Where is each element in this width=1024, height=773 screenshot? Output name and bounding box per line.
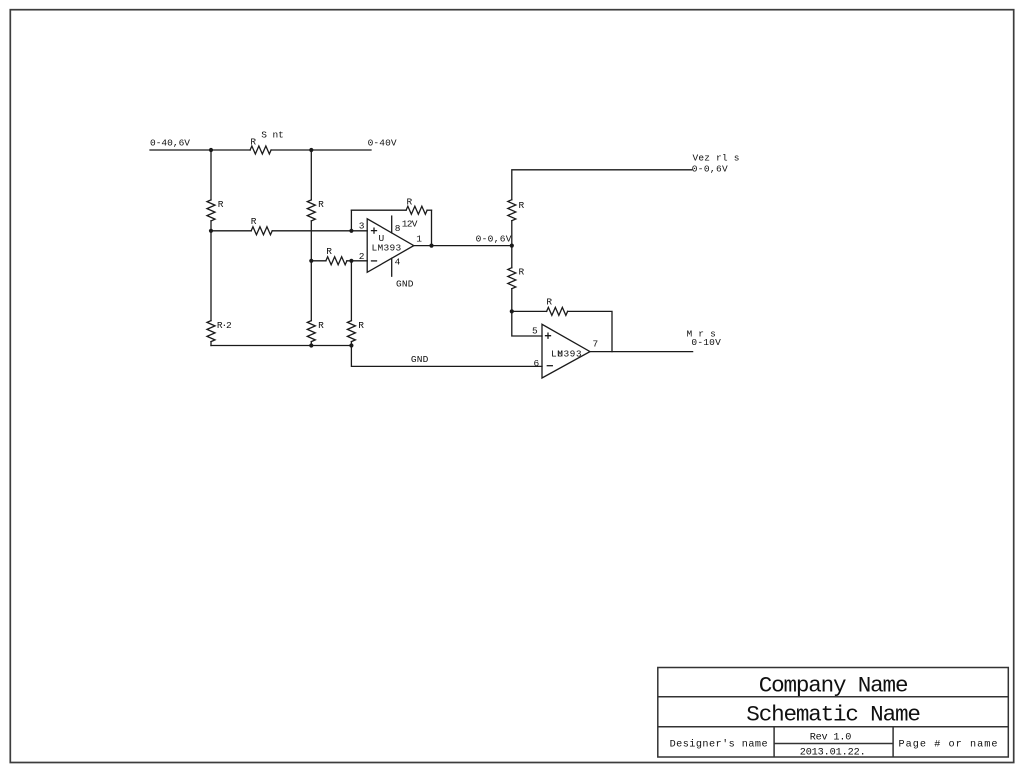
wire left vertical lower	[210, 342, 212, 346]
svg-text:0-0,6V: 0-0,6V	[476, 234, 512, 245]
svg-text:2013.01.22.: 2013.01.22.	[800, 748, 866, 759]
junction bottom mid	[309, 343, 313, 347]
wire top rail right	[271, 149, 371, 151]
svg-text:12V: 12V	[402, 219, 418, 230]
resistor R pin2 row	[326, 257, 347, 265]
svg-text:1: 1	[416, 234, 422, 245]
svg-text:Designer's name: Designer's name	[670, 738, 768, 750]
wire feedback1 right vertical	[431, 210, 433, 245]
wire right column top corner	[512, 170, 692, 200]
junction top-left	[209, 148, 213, 152]
svg-text:4: 4	[395, 257, 401, 268]
svg-text:3: 3	[359, 220, 365, 231]
wire left vertical middle	[210, 221, 212, 321]
svg-text:R: R	[358, 320, 364, 331]
resistor R mid top	[307, 200, 315, 221]
wire pin2 row right	[347, 260, 367, 262]
resistor R pin3 row	[251, 227, 272, 235]
wire output2	[590, 351, 693, 353]
wire feedback1 top right	[427, 209, 431, 211]
svg-text:8: 8	[395, 223, 401, 234]
wire right column lower	[511, 289, 513, 312]
op-amp U2 triangle	[542, 324, 590, 378]
svg-text:R: R	[218, 199, 224, 210]
svg-text:5: 5	[532, 326, 538, 337]
svg-text:R·2: R·2	[217, 320, 232, 331]
wire right column mid	[511, 221, 513, 268]
svg-text:S nt: S nt	[261, 130, 284, 141]
wire feedback2 right	[568, 311, 612, 351]
resistor R mid bottom	[307, 321, 315, 342]
resistor R right top	[508, 200, 516, 221]
svg-text:GND: GND	[396, 279, 414, 290]
wire gnd drop	[351, 346, 542, 367]
wire pin5 branch	[512, 311, 542, 336]
junction pin2 left	[309, 259, 313, 263]
wire bottom rail	[211, 345, 351, 347]
resistor R feedback2	[547, 307, 568, 315]
svg-text:0-40V: 0-40V	[368, 137, 397, 148]
svg-text:Page # or name: Page # or name	[899, 739, 998, 750]
wire feedback2 left	[512, 310, 547, 312]
junction pin3 feedback	[349, 229, 353, 233]
wire mid vertical lower	[310, 342, 312, 346]
wire third vertical upper	[350, 261, 352, 321]
resistor R third bottom	[347, 321, 355, 342]
resistor R right bottom	[508, 268, 516, 289]
resistor R feedback1	[406, 206, 427, 214]
wire mid vertical upper	[310, 150, 312, 200]
wire mid vertical middle	[310, 221, 312, 321]
svg-text:R: R	[250, 136, 256, 147]
op-amp U1 pin 4 line	[391, 258, 393, 276]
svg-text:LM393: LM393	[551, 348, 582, 359]
op-amp U2 plus sign	[546, 333, 551, 338]
svg-text:GND: GND	[411, 354, 429, 365]
resistor R (shunt)	[250, 146, 271, 154]
resistor R left top	[207, 200, 215, 221]
svg-text:Company Name: Company Name	[759, 672, 909, 698]
op-amp U2 minus sign	[547, 365, 552, 367]
svg-text:R: R	[318, 320, 324, 331]
op-amp U1 pin 8 line	[391, 216, 393, 233]
svg-text:R: R	[407, 196, 413, 207]
svg-text:R: R	[326, 246, 332, 257]
svg-text:0-0,6V: 0-0,6V	[692, 163, 728, 174]
wire third vertical lower	[350, 342, 352, 346]
svg-text:2: 2	[359, 251, 365, 262]
op-amp U1 plus sign	[372, 228, 377, 233]
svg-text:LM393: LM393	[372, 242, 402, 253]
svg-text:R: R	[519, 200, 525, 211]
junction pin2 right	[349, 259, 353, 263]
svg-text:R: R	[546, 297, 552, 308]
junction output1 feedback	[429, 244, 433, 248]
svg-text:Schematic Name: Schematic Name	[746, 702, 921, 728]
op-amp U1 triangle	[367, 219, 414, 272]
svg-text:Vez rl s: Vez rl s	[693, 153, 740, 164]
junction top-mid	[309, 148, 313, 152]
junction output1 column	[510, 244, 514, 248]
junction pin3 left	[209, 229, 213, 233]
svg-text:R: R	[318, 199, 324, 210]
wire pin2 row left	[311, 260, 326, 262]
wire left vertical upper	[210, 150, 212, 200]
junction column lower	[510, 309, 514, 313]
wire pin3 row left	[211, 230, 251, 232]
junction bottom right	[349, 343, 353, 347]
title block	[658, 668, 1009, 758]
wire output1	[414, 245, 512, 247]
svg-text:0-40,6V: 0-40,6V	[150, 137, 190, 148]
wire pin3 row right	[272, 230, 367, 232]
svg-text:Rev 1.0: Rev 1.0	[810, 732, 852, 743]
wire top rail left	[150, 149, 250, 151]
wire feedback1 left vertical	[350, 210, 352, 231]
svg-text:0-10V: 0-10V	[691, 337, 721, 348]
svg-text:6: 6	[534, 358, 540, 369]
svg-text:R: R	[251, 216, 257, 227]
op-amp U1 minus sign	[372, 260, 377, 262]
svg-text:R: R	[519, 266, 525, 277]
wire feedback1 top left	[351, 209, 406, 211]
svg-text:7: 7	[593, 339, 599, 350]
resistor R-2	[207, 321, 215, 342]
